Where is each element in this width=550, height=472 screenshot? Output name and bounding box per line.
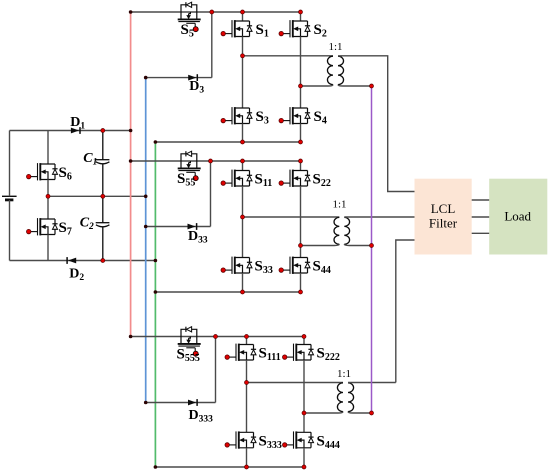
wire T3 primary bottom lead (304, 412, 343, 413)
node S2-S4 junction at 300.5,86 (299, 84, 303, 88)
svg-text:S33: S33 (255, 259, 273, 277)
svg-text:1:1: 1:1 (337, 368, 351, 380)
node red bus / cell2 rail at 130.6,161 (129, 159, 133, 163)
node S44 source at 300.5,292 (299, 290, 303, 294)
wire cell2 bottom rail (155, 291, 300, 293)
diode D33 (188, 224, 196, 230)
wire S4 source (300, 124, 302, 143)
transformer T3 1:1, primary coil (337, 383, 343, 412)
node green bus / cell3 bottom at 155.4,467 (154, 465, 158, 469)
battery V1 (2, 196, 17, 200)
node S1 drain at 242.5,12 (241, 10, 245, 14)
transistor S11 (N-MOSFET with body diode) (224, 170, 252, 187)
svg-text:D1: D1 (70, 115, 85, 132)
wire S444 source (303, 448, 305, 467)
wire S222 source (303, 360, 305, 413)
wire T3 secondary bottom lead (348, 412, 372, 413)
wire top-left rail (battery+ to red bus) (10, 130, 131, 132)
node S11 drain at 242.5,161 (241, 159, 245, 163)
block Load (489, 179, 547, 255)
svg-text:1:1: 1:1 (328, 41, 342, 53)
transistor S2 (N-MOSFET with body diode) (282, 20, 310, 37)
node C2 bottom at 102.8,260.5 (101, 259, 105, 263)
svg-text:S55: S55 (177, 171, 195, 189)
wire T2 secondary bottom lead (344, 244, 371, 245)
transformer T1 1:1, primary coil (327, 56, 333, 84)
transistor S222 (N-MOSFET with body diode) (285, 344, 313, 361)
wire S3 drain (242, 56, 244, 108)
node T1 secondary bottom at 371.5,86 (370, 84, 374, 88)
wire T1 secondary bottom lead (338, 85, 372, 86)
wire S44 source (300, 273, 302, 292)
node S222-S444 junction at 304,413 (302, 411, 306, 415)
wire S444 drain (303, 413, 305, 432)
svg-text:S1: S1 (256, 22, 269, 40)
wire S6 drain (47, 131, 49, 165)
svg-text:S111: S111 (259, 346, 281, 364)
wire S2 source (300, 37, 302, 87)
node D333 cathode / cell3 rail at 215.5,336.5 (214, 335, 218, 339)
node S444 source at 304,467 (302, 465, 306, 469)
wire cell1 bottom rail (155, 141, 300, 143)
transistor S7 (N-MOSFET with body diode) (29, 218, 57, 235)
svg-text:Filter: Filter (429, 215, 458, 230)
node red bus / cell3 rail at 130.6,336.5 (129, 335, 133, 339)
wire cell1 phase A to transformer (243, 55, 334, 57)
svg-text:S333: S333 (259, 434, 282, 452)
transistor S333 (N-MOSFET with body diode) (228, 431, 256, 448)
wire cell2 top rail (131, 160, 301, 162)
diode D1 (71, 128, 79, 134)
svg-text:D333: D333 (189, 408, 214, 425)
wire cell2 phase A to transformer (243, 216, 340, 218)
node S111-S333 junction at 246.5,382.5 (245, 381, 249, 385)
wire D3 branch (146, 12, 212, 78)
capacitor C2 (96, 196, 110, 260)
transformer T1 secondary coil (338, 56, 344, 84)
wire green dc- bus (154, 142, 156, 467)
wire battery- down (9, 200, 11, 261)
node red bus / battery rail at 130.6,130.5 (129, 129, 133, 133)
svg-text:D3: D3 (189, 79, 204, 96)
wire S11 drain (242, 161, 244, 171)
wire T3 secondary top to LCL input 3 (348, 240, 415, 383)
wire bottom-left rail (battery- to green bus) (10, 260, 156, 262)
node S6-S7 midpoint at 48,196.3 (46, 194, 50, 198)
svg-text:C2: C2 (80, 216, 94, 233)
wire S333 source (246, 448, 248, 467)
wire cell3 phase A to transformer (247, 382, 344, 384)
node S2 drain at 300.5,12 (299, 10, 303, 14)
wire D33 branch (146, 161, 211, 227)
node red bus top at 130.6,12 (129, 10, 133, 14)
wire cell1 top rail (131, 11, 301, 13)
wire S1 drain (242, 12, 244, 21)
svg-text:S2: S2 (314, 22, 327, 40)
transistor S5 (horizontal N-MOSFET with body diode) (178, 2, 201, 26)
wire S111 drain (246, 337, 248, 345)
transistor S444 (N-MOSFET with body diode) (285, 431, 313, 448)
node C1 top at 102.8,130.5 (101, 129, 105, 133)
node S1-S3 junction at 242.5,55.8 (241, 54, 245, 58)
wire T2 primary bottom lead (301, 244, 340, 245)
transistor S555 (horizontal N-MOSFET with body diode) (178, 327, 201, 351)
svg-text:S3: S3 (256, 109, 269, 127)
node S22-S44 junction at 300.5,245.5 (299, 244, 303, 248)
node T2 secondary bottom at 371.5,245.5 (370, 244, 374, 248)
svg-text:S6: S6 (59, 165, 72, 183)
wire blue midpoint bus (145, 78, 147, 403)
node blue bus / D33 at 145.7,226.5 (144, 225, 148, 229)
transistor S4 (N-MOSFET with body diode) (282, 107, 310, 124)
wire S111 source (246, 360, 248, 383)
wire D333 branch (146, 337, 216, 403)
wire S33 drain (242, 217, 244, 258)
transistor S44 (N-MOSFET with body diode) (282, 257, 310, 274)
svg-text:1:1: 1:1 (332, 199, 346, 211)
node S222 drain at 304,336.5 (302, 335, 306, 339)
diode D333 (188, 400, 196, 406)
node green bus / cell2 bottom at 155.4,292 (154, 290, 158, 294)
node S22 drain at 300.5,161 (299, 159, 303, 163)
wire S44 drain (300, 246, 302, 258)
svg-text:S11: S11 (255, 172, 273, 190)
transformer T3 secondary coil (348, 383, 354, 412)
svg-text:D33: D33 (188, 229, 208, 246)
wire S333 drain (246, 383, 248, 433)
node S3 source at 242.5,142 (241, 140, 245, 144)
svg-text:S7: S7 (59, 220, 72, 238)
svg-text:S22: S22 (313, 172, 331, 190)
wire S11 source (242, 186, 244, 217)
wire S1 source (242, 37, 244, 56)
capacitor C1 (96, 131, 110, 197)
node C1-C2 midpoint at 102.8,196.3 (101, 194, 105, 198)
node D3 cathode / top rail at 211.8,12 (210, 10, 214, 14)
block LCL filter (415, 179, 472, 255)
node blue bus / D333 at 145.7,402.5 (144, 401, 148, 405)
wire S22 source (300, 186, 302, 246)
wire S222 drain (303, 337, 305, 345)
transformer T2 secondary coil (344, 217, 349, 244)
node green bus / battery- at 155.4,260.5 (154, 259, 158, 263)
node S333 source at 246.5,467 (245, 465, 249, 469)
node green bus / cell1 bottom at 155.4,142 (154, 140, 158, 144)
wire LCL to load 3 (472, 232, 490, 234)
wire LCL to load 2 (472, 216, 490, 218)
wire red dc+ bus (130, 12, 132, 337)
svg-text:D2: D2 (69, 267, 84, 284)
wire cell3 bottom rail (155, 466, 304, 468)
diode D2 (68, 258, 76, 264)
node S111 drain at 246.5,336.5 (245, 335, 249, 339)
node S33 source at 242.5,292 (241, 290, 245, 294)
wire S7 source to bottom rail (47, 235, 49, 261)
transistor S111 (N-MOSFET with body diode) (228, 344, 256, 361)
transistor S3 (N-MOSFET with body diode) (224, 107, 252, 124)
wire LCL to load 1 (472, 199, 490, 201)
transistor S22 (N-MOSFET with body diode) (282, 170, 310, 187)
svg-text:S444: S444 (317, 434, 340, 452)
svg-text:S4: S4 (314, 109, 327, 127)
node T3 secondary bottom at 371.5,413 (370, 411, 374, 415)
svg-text:S5: S5 (181, 22, 194, 40)
wire S4 drain (300, 86, 302, 108)
wire S6 source to midpoint (47, 180, 49, 197)
transistor S6 (N-MOSFET with body diode) (29, 163, 57, 180)
node S4 source at 300.5,142 (299, 140, 303, 144)
node blue bus / midpoint at 145.7,196.3 (144, 195, 148, 199)
svg-text:C1: C1 (83, 151, 97, 168)
transistor S55 (horizontal N-MOSFET with body diode) (178, 151, 201, 175)
transistor S1 (N-MOSFET with body diode) (224, 20, 252, 37)
svg-text:Load: Load (504, 209, 531, 224)
wire cell3 top rail (131, 336, 304, 338)
svg-text:S222: S222 (317, 346, 340, 364)
diode D3 (188, 75, 196, 81)
svg-text:S44: S44 (313, 259, 331, 277)
transformer T2 1:1, primary coil (334, 217, 339, 244)
wire purple secondary common link (371, 86, 373, 413)
wire T1 primary bottom lead (301, 85, 334, 86)
node blue bus / D3 at 145.7,77.6 (144, 76, 148, 80)
wire S2 drain (300, 12, 302, 21)
wire S7 drain (47, 196, 49, 219)
wire T2 secondary top to LCL input 2 (344, 216, 414, 218)
svg-text:LCL: LCL (431, 201, 456, 216)
node S11-S33 junction at 242.5,217 (241, 215, 245, 219)
transistor S33 (N-MOSFET with body diode) (224, 257, 252, 274)
wire S22 drain (300, 161, 302, 171)
wire battery+ up (9, 131, 11, 197)
wire S3 source (242, 124, 244, 143)
wire dc midpoint rail to blue bus (48, 195, 146, 197)
svg-text:S555: S555 (177, 347, 200, 365)
wire T1 secondary top to LCL input 1 (338, 56, 415, 192)
node D33 cathode / cell2 rail at 210.5,161 (209, 159, 213, 163)
wire S33 source (242, 273, 244, 292)
